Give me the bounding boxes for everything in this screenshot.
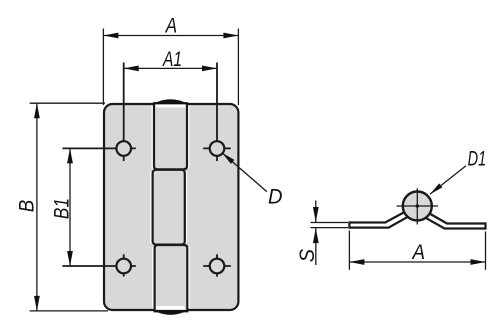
pin arc bottom white sliver [156, 306, 184, 309]
dim S arrow top [313, 207, 319, 222]
dim A arrow left [103, 33, 118, 39]
dim A arrow right [223, 33, 238, 39]
hole bottom-left [116, 259, 131, 274]
knuckle bottom segment halo [152, 247, 190, 309]
dim A1 line [124, 67, 217, 69]
hole top-right crosshair [203, 63, 231, 162]
svg-text:A1: A1 [162, 47, 182, 71]
svg-text:B1: B1 [49, 198, 73, 219]
knuckle top segment [154, 103, 187, 169]
hole top-right [210, 141, 225, 156]
dim A extension line right [237, 29, 239, 106]
profile sheet left end cap [348, 221, 350, 228]
dim B arrow bottom [34, 296, 40, 311]
dim A2 extension line left [348, 231, 350, 270]
dim B1 arrow top [67, 148, 73, 163]
profile sheet right end cap [484, 222, 486, 229]
centerline vertical [416, 188, 418, 224]
knuckle circle (pin) [403, 192, 432, 221]
leader D arrow [222, 153, 234, 164]
dim A2 line [349, 261, 485, 263]
dim A1 arrow left [124, 66, 139, 72]
hole top-left crosshair [62, 63, 135, 162]
svg-text:D: D [268, 185, 283, 209]
dim S line above [315, 201, 317, 223]
dim A2 extension line right [485, 232, 487, 270]
leader D1 line [430, 166, 466, 194]
center dot [416, 204, 419, 207]
knuckle middle segment halo [150, 172, 187, 244]
dim B arrow top [34, 103, 40, 118]
leader D line [222, 153, 267, 192]
dim S line below [315, 228, 317, 265]
pin arc top [153, 99, 188, 104]
profile sheet right bottom surface [425, 217, 486, 228]
knuckle bottom segment [155, 245, 188, 311]
dim S extension line bottom [311, 227, 349, 229]
hinge body (front view) [104, 104, 238, 310]
centerline horizontal [397, 205, 439, 207]
dim S arrow bottom [313, 228, 319, 243]
dim A line [103, 35, 238, 37]
svg-text:A: A [164, 14, 177, 38]
profile sheet left bottom surface [349, 216, 409, 227]
dim A extension line left [102, 29, 104, 106]
hole bottom-right [210, 259, 225, 274]
hole bottom-left crosshair [62, 254, 135, 276]
hole bottom-right crosshair [203, 254, 231, 276]
svg-text:S: S [295, 248, 319, 262]
profile sheet left top surface [349, 211, 406, 223]
knuckle top segment halo [152, 106, 190, 169]
profile sheet right top surface [426, 212, 486, 224]
pin arc bottom [153, 310, 188, 315]
pin arc top white sliver [156, 104, 186, 107]
knuckle middle segment [153, 170, 185, 245]
dim B1 arrow bottom [67, 251, 73, 266]
dim A1 arrow right [202, 66, 217, 72]
dim B extension line top [30, 102, 105, 104]
svg-text:B: B [15, 200, 39, 213]
dim A2 arrow right [471, 259, 486, 265]
svg-text:D1: D1 [468, 147, 487, 171]
dim A2 arrow left [349, 259, 364, 265]
dim B extension line bottom [30, 310, 108, 312]
dim B1 line [69, 148, 71, 266]
svg-text:A: A [411, 240, 425, 264]
leader D1 arrow [430, 183, 443, 194]
dim B line [36, 103, 38, 311]
hole top-left [116, 141, 131, 156]
dim S extension line top [311, 222, 349, 224]
